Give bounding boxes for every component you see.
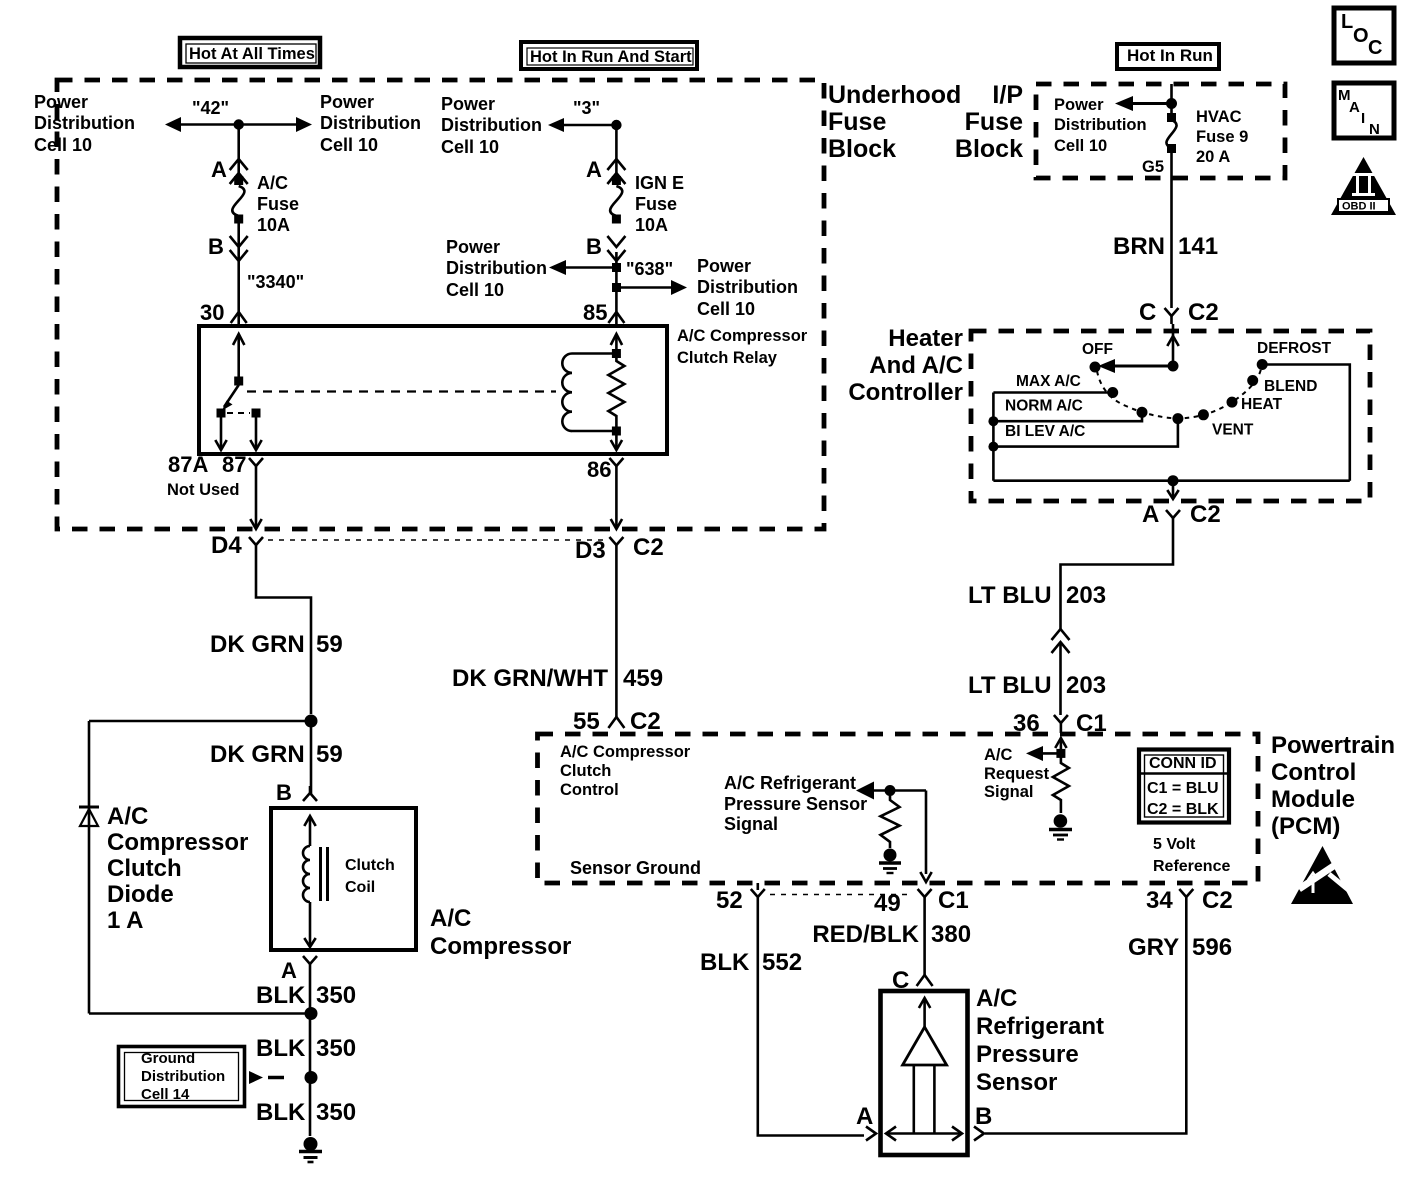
icon LOC box	[1334, 8, 1394, 63]
svg-text:DK GRN: DK GRN	[210, 631, 305, 658]
svg-text:Block: Block	[828, 135, 896, 163]
svg-text:Reference: Reference	[1153, 858, 1230, 875]
svg-text:Compressor: Compressor	[430, 933, 571, 960]
arrowhead A/C request	[1026, 746, 1043, 761]
svg-text:A/C: A/C	[257, 173, 288, 193]
wire "3340" down to relay pin 30	[237, 221, 240, 324]
svg-text:B: B	[586, 234, 602, 259]
svg-text:1 A: 1 A	[107, 907, 143, 934]
node junction 638 upper	[612, 263, 621, 272]
clutch coil internal arrow down	[309, 902, 312, 946]
node BLEND contact	[1247, 375, 1258, 386]
svg-text:Not Used: Not Used	[167, 481, 239, 499]
sensor shaft lines	[912, 1065, 915, 1133]
wire BLK 552	[758, 905, 864, 1136]
wire from node 42 down to fuse	[237, 125, 240, 180]
svg-text:And A/C: And A/C	[869, 352, 963, 379]
svg-text:Controller: Controller	[848, 379, 963, 406]
svg-text:A: A	[281, 958, 297, 983]
dashed box Heater And A/C Controller	[971, 331, 1370, 501]
svg-text:BI LEV A/C: BI LEV A/C	[1005, 423, 1085, 440]
svg-text:BLK: BLK	[256, 982, 306, 1009]
svg-text:59: 59	[316, 741, 343, 768]
svg-text:LT BLU: LT BLU	[968, 582, 1052, 609]
svg-text:Distribution: Distribution	[441, 115, 542, 135]
svg-text:Distribution: Distribution	[34, 113, 135, 133]
arrowhead left to Power Distribution	[165, 117, 181, 132]
svg-text:I/P: I/P	[992, 81, 1023, 109]
svg-text:Refrigerant: Refrigerant	[976, 1013, 1104, 1040]
arrowhead Ground Distribution to wire	[249, 1071, 263, 1084]
node rail junction NORM	[988, 416, 998, 426]
pin A connector (double chevron) of A/C Fuse	[230, 159, 248, 170]
svg-text:Power: Power	[441, 94, 495, 114]
svg-text:A/C Refrigerant: A/C Refrigerant	[724, 773, 856, 793]
svg-text:Fuse 9: Fuse 9	[1196, 128, 1248, 146]
svg-text:C: C	[1139, 299, 1156, 326]
dashed box Powertrain Control Module (PCM)	[538, 734, 1259, 883]
svg-text:BLEND: BLEND	[1264, 378, 1317, 395]
pin 30 connector chevron	[231, 312, 247, 323]
svg-text:52: 52	[716, 887, 743, 914]
svg-text:MAX A/C: MAX A/C	[1016, 373, 1081, 390]
wire MAX A/C bar	[993, 391, 1112, 394]
svg-text:Underhood: Underhood	[828, 81, 961, 109]
svg-text:Distribution: Distribution	[320, 113, 421, 133]
svg-text:"638": "638"	[626, 259, 673, 279]
svg-text:Clutch: Clutch	[107, 855, 182, 882]
svg-text:Clutch: Clutch	[345, 857, 395, 874]
node rail junction BI LEV	[988, 442, 998, 452]
wire D3 down to PCM pin 55	[615, 553, 618, 717]
svg-text:Module: Module	[1271, 786, 1355, 813]
relay 87 internal arrow down	[255, 418, 258, 450]
svg-text:Ground: Ground	[141, 1050, 195, 1067]
svg-text:RED/BLK: RED/BLK	[812, 921, 919, 948]
svg-text:GRY: GRY	[1128, 934, 1179, 961]
svg-text:LT BLU: LT BLU	[968, 672, 1052, 699]
A/C Compressor box	[271, 808, 416, 950]
connector line between D4 and D3	[268, 539, 604, 541]
svg-text:87: 87	[222, 452, 246, 477]
relay common terminal	[234, 377, 243, 386]
svg-text:Distribution: Distribution	[141, 1068, 225, 1085]
wire 86 down to D3	[615, 474, 618, 527]
svg-text:Heater: Heater	[888, 325, 963, 352]
node junction entry	[1168, 361, 1179, 372]
wire sensor B to GRY	[985, 905, 1186, 1134]
node HEAT contact	[1227, 397, 1238, 408]
svg-text:10A: 10A	[257, 215, 290, 235]
wire "3" horizontal	[560, 124, 616, 127]
dashed mechanical link from switch to coil	[247, 390, 556, 392]
svg-text:86: 86	[587, 457, 611, 482]
relay 87 terminal	[252, 409, 261, 418]
wire junction to diode branch top	[89, 720, 311, 723]
wire LT BLU jog	[1061, 526, 1174, 630]
relay pin 30 internal arrow	[233, 334, 244, 345]
relay switch blade to 87A	[224, 385, 239, 407]
svg-text:Control: Control	[1271, 759, 1356, 786]
svg-text:VENT: VENT	[1212, 422, 1254, 439]
pin C connector chevron	[917, 975, 933, 986]
node junction BLK/diode	[305, 1007, 318, 1020]
dashed box Underhood Fuse Block	[57, 80, 824, 529]
arrowhead right to Power Distribution	[671, 280, 687, 295]
svg-text:"3": "3"	[573, 98, 600, 118]
svg-text:C2 = BLK: C2 = BLK	[1147, 801, 1219, 818]
svg-text:A/C: A/C	[984, 746, 1013, 764]
svg-text:C: C	[1368, 37, 1382, 59]
wire junction down to compressor pin B	[310, 721, 313, 794]
node junction "3"	[611, 120, 621, 130]
svg-text:OFF: OFF	[1082, 341, 1113, 358]
fuse A/C Fuse 10A element	[234, 176, 243, 185]
node NORM A/C contact	[1137, 407, 1148, 418]
dashed box I/P Fuse Block	[1036, 84, 1285, 178]
dash to junction	[268, 1076, 284, 1080]
box A/C Refrigerant Pressure Sensor	[881, 991, 968, 1155]
svg-text:B: B	[276, 780, 292, 805]
pin A fork connector	[866, 1127, 876, 1141]
dashed link between 87A and 87 terminals	[227, 412, 250, 414]
wire "42" horizontal	[176, 123, 303, 126]
pin A connector (double chevron) of IGN E fuse	[607, 159, 625, 170]
svg-text:I: I	[1361, 110, 1365, 127]
inductor clutch coil	[303, 846, 310, 902]
svg-text:Signal: Signal	[984, 783, 1034, 801]
wire arrow to node	[871, 789, 926, 792]
box Ground Distribution Cell 14	[119, 1047, 245, 1107]
wire from node 3 down to IGN E fuse	[615, 125, 618, 179]
label box "Hot At All Times"	[180, 38, 320, 67]
dashed rotary arc	[1097, 369, 1261, 419]
svg-text:A/C Compressor: A/C Compressor	[677, 327, 808, 345]
resistor A/C request pull-up	[1053, 753, 1069, 813]
wire bottom bar	[993, 479, 1349, 482]
svg-text:G5: G5	[1142, 158, 1164, 176]
svg-text:Distribution: Distribution	[446, 258, 547, 278]
svg-text:Signal: Signal	[724, 814, 778, 834]
wire BI LEV A/C bar	[993, 419, 1178, 447]
sensor internal arrow up	[919, 998, 930, 1008]
wire node to 49 corner	[925, 791, 928, 875]
ground internal (sensor signal)	[884, 849, 897, 862]
node junction output	[1168, 475, 1179, 486]
svg-text:DK GRN: DK GRN	[210, 741, 305, 768]
svg-text:Cell 10: Cell 10	[1054, 137, 1107, 155]
wire pin A down to ground	[309, 972, 312, 1136]
node coil bottom junction	[612, 427, 621, 436]
relay 87A terminal	[217, 409, 226, 418]
svg-text:HEAT: HEAT	[1241, 396, 1283, 413]
svg-text:Clutch Relay: Clutch Relay	[677, 349, 778, 367]
svg-text:Hot At All Times: Hot At All Times	[189, 45, 315, 63]
pin D3 connector Y	[609, 537, 623, 545]
svg-text:Fuse: Fuse	[965, 108, 1023, 136]
svg-text:A: A	[1142, 501, 1159, 528]
svg-text:A: A	[856, 1103, 873, 1130]
splice double chevron	[1052, 629, 1070, 640]
connector line between 52 and 49	[770, 894, 912, 896]
arrowhead right to Power Distribution	[296, 117, 312, 132]
svg-text:Hot In Run And Start: Hot In Run And Start	[530, 48, 692, 66]
fuse IGN E Fuse 10A element	[612, 176, 621, 185]
svg-text:Distribution: Distribution	[697, 277, 798, 297]
svg-text:IGN E: IGN E	[635, 173, 684, 193]
svg-text:203: 203	[1066, 582, 1106, 609]
svg-text:Cell 10: Cell 10	[441, 137, 499, 157]
wire 87 down to D4	[255, 474, 258, 527]
sensor triangle	[903, 1027, 947, 1065]
svg-text:DK GRN/WHT: DK GRN/WHT	[452, 665, 608, 692]
svg-text:Cell 14: Cell 14	[141, 1086, 190, 1103]
svg-text:BRN: BRN	[1113, 233, 1165, 260]
relay pin 85 internal arrow	[611, 334, 622, 345]
relay A/C Compressor Clutch Relay box	[199, 326, 667, 454]
svg-text:350: 350	[316, 982, 356, 1009]
pin D4 connector Y	[249, 537, 263, 545]
svg-text:Control: Control	[560, 781, 619, 799]
wire BRN 141	[1170, 153, 1173, 308]
svg-text:36: 36	[1013, 710, 1040, 737]
svg-text:Diode: Diode	[107, 881, 174, 908]
wire 638 to the right	[616, 286, 674, 289]
svg-text:350: 350	[316, 1035, 356, 1062]
node junction 638 lower	[612, 283, 621, 292]
svg-text:Fuse: Fuse	[635, 194, 677, 214]
wire left rail	[992, 393, 995, 481]
wire output arrow down	[1172, 481, 1175, 498]
svg-text:B: B	[975, 1103, 992, 1130]
wire HVAC fuse top	[1170, 84, 1173, 117]
svg-text:Hot In Run: Hot In Run	[1127, 46, 1213, 65]
clutch coil core lines	[319, 847, 322, 901]
pin 34 connector Y	[1179, 889, 1193, 897]
svg-text:O: O	[1353, 25, 1369, 47]
pin A connector Y	[1166, 510, 1180, 518]
wire request to left arrow	[1042, 752, 1061, 755]
svg-text:L: L	[1341, 11, 1353, 33]
clutch coil internal arrow up	[304, 816, 315, 826]
node junction A/C request	[1056, 749, 1065, 758]
svg-text:Cell 10: Cell 10	[697, 299, 755, 319]
svg-text:203: 203	[1066, 672, 1106, 699]
node junction ground tap	[305, 1071, 318, 1084]
svg-text:A: A	[211, 157, 227, 182]
svg-text:380: 380	[931, 921, 971, 948]
node DEFROST contact	[1257, 359, 1268, 370]
svg-text:A/C Compressor: A/C Compressor	[560, 743, 691, 761]
wire D4 to DK GRN 59 jog	[256, 553, 311, 714]
wire diode branch left vertical	[88, 721, 91, 1014]
relay coil branch top bar	[572, 352, 616, 355]
wire 638 to the left	[562, 266, 616, 269]
pin 87 connector Y	[249, 458, 263, 466]
svg-text:141: 141	[1178, 233, 1218, 260]
node coil top junction	[612, 349, 621, 358]
pin A connector Y	[303, 956, 317, 964]
relay pin 86 internal arrow down	[615, 435, 618, 449]
svg-text:Cell 10: Cell 10	[446, 280, 504, 300]
pin 36 connector Y	[1054, 715, 1068, 723]
label box "Hot In Run"	[1117, 44, 1219, 69]
svg-text:C1 = BLU: C1 = BLU	[1147, 780, 1219, 797]
arrowhead power distribution	[1115, 96, 1133, 111]
svg-text:NORM A/C: NORM A/C	[1005, 398, 1083, 415]
ESD symbol	[1291, 846, 1357, 904]
box CONN ID	[1139, 750, 1229, 823]
node BI LEV A/C contact	[1172, 413, 1183, 424]
svg-text:A: A	[1349, 99, 1360, 116]
svg-text:OBD II: OBD II	[1342, 201, 1376, 213]
svg-text:CONN ID: CONN ID	[1149, 755, 1217, 772]
arrowhead to OFF contact	[1098, 359, 1115, 373]
svg-text:Sensor Ground: Sensor Ground	[570, 858, 701, 878]
svg-text:Coil: Coil	[345, 879, 375, 896]
svg-text:D3: D3	[575, 537, 606, 564]
svg-text:20 A: 20 A	[1196, 148, 1230, 166]
wire 36 internal arrow up	[1055, 738, 1066, 748]
icon OBD II triangle	[1331, 157, 1396, 215]
svg-text:C1: C1	[1076, 710, 1107, 737]
node junction HVAC	[1166, 98, 1177, 109]
svg-text:Compressor: Compressor	[107, 829, 248, 856]
ground internal (request)	[1054, 814, 1068, 828]
svg-text:55: 55	[573, 708, 600, 735]
pin 86 connector Y	[609, 458, 623, 466]
wire LT BLU lower	[1059, 642, 1062, 715]
svg-text:A/C: A/C	[430, 905, 471, 932]
node junction DK GRN	[305, 715, 318, 728]
node junction "42"	[234, 119, 244, 129]
pin B fork connector	[974, 1127, 984, 1141]
relay resistor element	[608, 354, 624, 432]
wire entry to OFF	[1112, 365, 1173, 368]
node MAX A/C contact	[1107, 387, 1118, 398]
svg-text:"3340": "3340"	[247, 272, 304, 292]
svg-text:Cell 10: Cell 10	[34, 135, 92, 155]
svg-text:"42": "42"	[192, 98, 229, 118]
svg-text:C2: C2	[1190, 501, 1221, 528]
svg-text:Power: Power	[320, 92, 374, 112]
arrowhead pressure sensor signal	[856, 782, 874, 800]
node OFF contact	[1090, 362, 1101, 373]
pin B connector chevron	[303, 793, 317, 801]
svg-text:C2: C2	[630, 708, 661, 735]
svg-text:Power: Power	[1054, 96, 1104, 114]
pin B connector (double chevron) of IGN E fuse	[607, 236, 625, 247]
relay 87A internal arrow down	[220, 418, 223, 450]
relay coil inductor	[562, 354, 572, 432]
sensor double arrow	[887, 1132, 961, 1135]
svg-text:D4: D4	[211, 532, 242, 559]
svg-text:DEFROST: DEFROST	[1257, 340, 1332, 357]
svg-text:A/C: A/C	[976, 985, 1017, 1012]
svg-text:Power: Power	[34, 92, 88, 112]
wire down to relay pin 85	[615, 252, 618, 324]
svg-text:Clutch: Clutch	[560, 762, 611, 780]
node VENT contact	[1198, 409, 1209, 420]
svg-text:87A: 87A	[168, 452, 208, 477]
svg-text:49: 49	[874, 890, 901, 917]
wire to left arrow	[1130, 102, 1172, 105]
svg-text:Block: Block	[955, 135, 1023, 163]
icon MAIN box	[1334, 83, 1394, 138]
svg-text:HVAC: HVAC	[1196, 108, 1242, 126]
diode A/C Compressor Clutch Diode	[79, 806, 99, 809]
pin 52 connector Y	[751, 889, 765, 897]
svg-text:C2: C2	[1188, 299, 1219, 326]
svg-text:85: 85	[583, 300, 607, 325]
svg-text:Power: Power	[446, 237, 500, 257]
svg-text:Distribution: Distribution	[1054, 116, 1147, 134]
svg-text:459: 459	[623, 665, 663, 692]
svg-text:350: 350	[316, 1099, 356, 1126]
pin 55 connector chevron	[608, 717, 624, 728]
svg-text:C2: C2	[1202, 887, 1233, 914]
wire controller entry arrow up	[1172, 324, 1175, 366]
wire RED/BLK 380	[923, 905, 926, 975]
wire DEFROST to right rail	[1262, 365, 1350, 481]
svg-text:5 Volt: 5 Volt	[1153, 836, 1196, 853]
svg-text:596: 596	[1192, 934, 1232, 961]
svg-text:Fuse: Fuse	[257, 194, 299, 214]
svg-text:Pressure Sensor: Pressure Sensor	[724, 794, 867, 814]
pin B connector (double chevron) of A/C Fuse	[230, 236, 248, 247]
svg-text:A/C: A/C	[107, 803, 148, 830]
arrowhead down to pin 49	[920, 872, 931, 882]
node junction pressure signal	[885, 785, 896, 796]
svg-text:N: N	[1369, 121, 1380, 138]
svg-text:59: 59	[316, 631, 343, 658]
svg-text:C2: C2	[633, 534, 664, 561]
arrowhead left to Power Distribution	[548, 118, 564, 132]
svg-text:(PCM): (PCM)	[1271, 813, 1340, 840]
pin 49 connector Y	[918, 889, 932, 897]
svg-text:Power: Power	[697, 256, 751, 276]
svg-text:Pressure: Pressure	[976, 1041, 1079, 1068]
svg-text:B: B	[208, 234, 224, 259]
wire diode branch bottom	[89, 1012, 311, 1015]
svg-text:10A: 10A	[635, 215, 668, 235]
pin C connector Y	[1165, 308, 1179, 316]
svg-text:34: 34	[1146, 887, 1173, 914]
relay coil branch bottom bar	[572, 430, 616, 433]
svg-text:552: 552	[762, 949, 802, 976]
svg-text:BLK: BLK	[256, 1099, 306, 1126]
svg-text:BLK: BLK	[256, 1035, 306, 1062]
wire NORM A/C bar	[993, 412, 1142, 421]
svg-text:BLK: BLK	[700, 949, 750, 976]
fuse HVAC Fuse 9 element	[1167, 113, 1176, 122]
svg-text:A: A	[586, 157, 602, 182]
svg-text:30: 30	[200, 300, 224, 325]
svg-text:Fuse: Fuse	[828, 108, 886, 136]
ground symbol G103	[304, 1137, 318, 1151]
pin 85 connector chevron	[608, 312, 624, 323]
resistor pull-up 5V reference	[881, 791, 900, 849]
label box "Hot In Run And Start"	[521, 42, 697, 69]
svg-text:Sensor: Sensor	[976, 1069, 1057, 1096]
arrowhead left to Power Distribution	[549, 260, 566, 275]
svg-text:Request: Request	[984, 765, 1050, 783]
svg-text:Powertrain: Powertrain	[1271, 732, 1395, 759]
svg-text:Cell 10: Cell 10	[320, 135, 378, 155]
svg-text:C1: C1	[938, 887, 969, 914]
wire pin 52 stub	[756, 883, 759, 890]
